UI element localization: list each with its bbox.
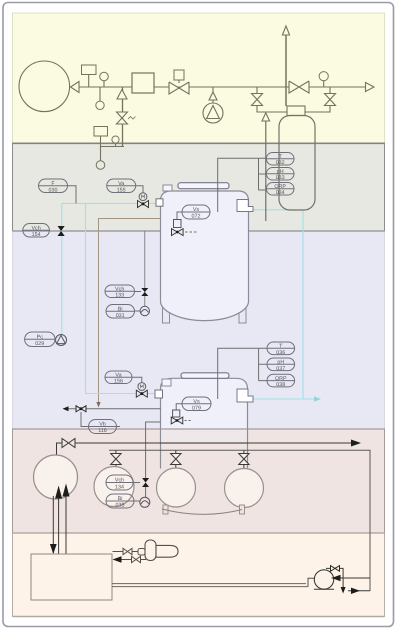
svg-text:033: 033: [276, 175, 285, 181]
svg-text:154: 154: [32, 232, 41, 238]
svg-text:031: 031: [116, 313, 125, 319]
svg-text:037: 037: [276, 366, 285, 372]
svg-text:pH: pH: [277, 360, 284, 366]
svg-text:Vch: Vch: [31, 226, 40, 232]
svg-text:ORP: ORP: [275, 376, 287, 382]
svg-text:Va: Va: [118, 181, 124, 187]
svg-text:032: 032: [276, 160, 285, 166]
svg-text:pH: pH: [277, 169, 284, 175]
svg-text:ORP: ORP: [274, 184, 286, 190]
svg-text:Bi: Bi: [118, 496, 123, 502]
svg-text:155: 155: [117, 187, 126, 193]
svg-text:072: 072: [192, 214, 201, 220]
svg-text:Vch: Vch: [115, 478, 124, 484]
svg-text:Pc: Pc: [37, 334, 44, 340]
svg-text:036: 036: [276, 350, 285, 356]
svg-text:079: 079: [192, 405, 201, 411]
svg-text:133: 133: [115, 293, 124, 299]
svg-text:Vb: Vb: [99, 422, 106, 428]
svg-text:038: 038: [276, 382, 285, 388]
svg-text:Vch: Vch: [115, 287, 124, 293]
svg-text:035: 035: [116, 503, 125, 509]
svg-text:Bi: Bi: [118, 307, 123, 313]
svg-text:030: 030: [49, 187, 58, 193]
svg-text:Vs: Vs: [193, 207, 200, 213]
svg-text:156: 156: [114, 379, 123, 385]
svg-text:029: 029: [35, 341, 44, 347]
svg-text:034: 034: [276, 190, 285, 196]
svg-text:Va: Va: [115, 373, 121, 379]
svg-text:134: 134: [115, 485, 124, 491]
svg-text:Vs: Vs: [193, 399, 200, 405]
svg-text:116: 116: [98, 428, 107, 434]
